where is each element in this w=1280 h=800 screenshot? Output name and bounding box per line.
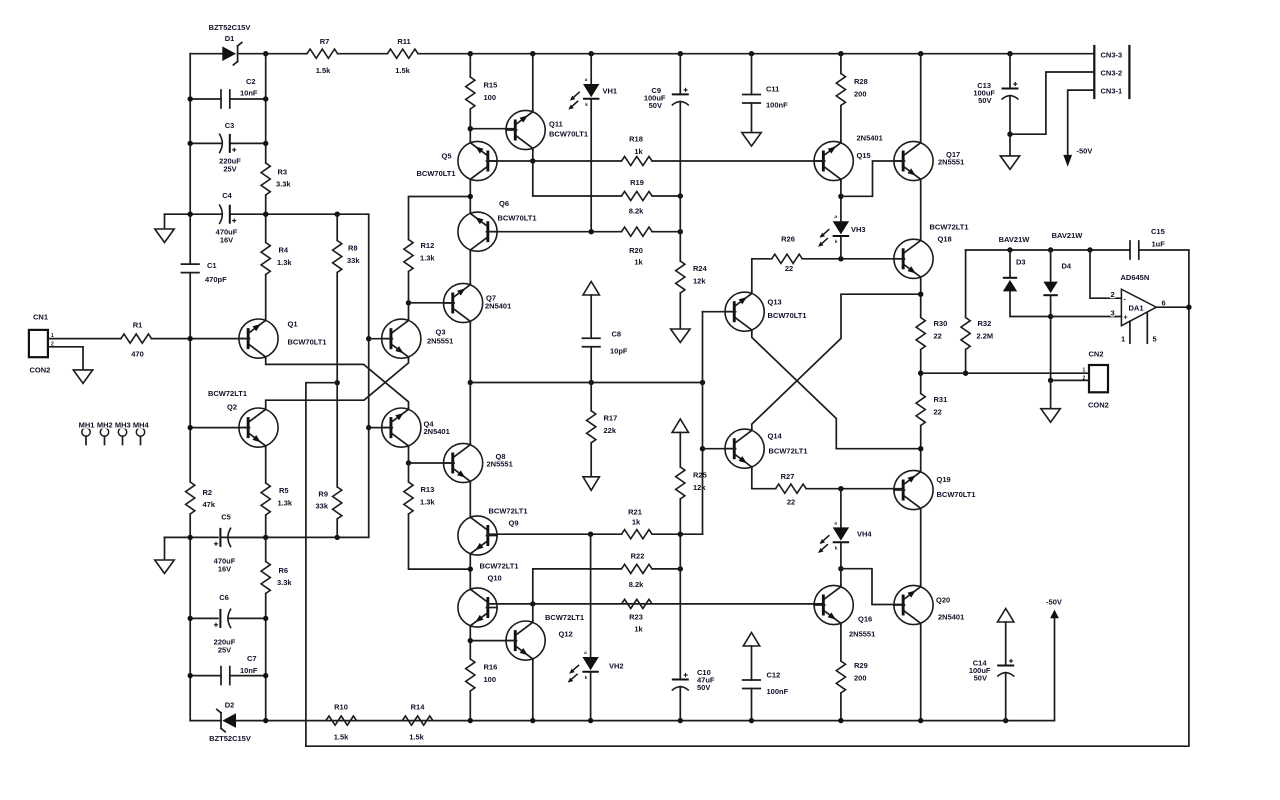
wire VH2 from R21 node	[590, 534, 592, 657]
junction node (1090,250)	[1087, 247, 1092, 252]
wire Q3 collector to R12 junction	[408, 303, 410, 319]
wire arrow to C14	[1005, 622, 1007, 666]
junction node (920.7,448.7)	[918, 446, 923, 451]
svg-text:R31: R31	[934, 395, 948, 404]
resistor R21 1k	[622, 530, 653, 539]
svg-text:-50V: -50V	[1077, 147, 1093, 156]
junction node (591.2,231.7)	[589, 229, 594, 234]
junction node (337.2,214.2)	[335, 212, 340, 217]
wire Q5 emitter/collector chain	[469, 181, 471, 212]
wire R18 left from Q5 base node	[533, 160, 622, 162]
junction node (265.7,675.6)	[263, 673, 268, 678]
wire R31 to Q19 emitter node	[920, 426, 922, 471]
svg-text:Q5: Q5	[442, 152, 452, 161]
wire C11 to ground	[751, 103, 753, 133]
svg-text:C2: C2	[246, 77, 256, 86]
svg-text:1.5k: 1.5k	[409, 733, 424, 742]
wire R7 to R11	[338, 53, 388, 55]
junction node (680.3,534.2)	[678, 532, 683, 537]
svg-text:10pF: 10pF	[610, 347, 628, 356]
resistor R17 22k	[587, 411, 596, 443]
svg-text:2N5551: 2N5551	[849, 630, 875, 639]
capacitor C11 100nF	[743, 95, 761, 104]
svg-text:2N5401: 2N5401	[938, 613, 964, 622]
resistor R7	[307, 49, 338, 58]
svg-text:R30: R30	[934, 319, 948, 328]
junction node (590.6,534.2)	[588, 532, 593, 537]
svg-text:Q19: Q19	[937, 475, 951, 484]
svg-text:2N5401: 2N5401	[485, 302, 511, 311]
wire Q2 collector to X cross to Q3 emitter	[266, 358, 409, 408]
svg-text:Q14: Q14	[768, 432, 783, 441]
svg-text:22k: 22k	[604, 426, 617, 435]
capacitor C1 470pF	[181, 264, 199, 273]
wire Q10 bottom to R16 node	[469, 627, 471, 659]
junction node (532.8,603.9)	[530, 601, 535, 606]
wire R28 to Q15 emitter	[840, 106, 842, 142]
svg-text:Q20: Q20	[936, 596, 950, 605]
svg-text:Q1: Q1	[288, 320, 298, 329]
wire CN1 pin2 to ground	[48, 347, 83, 370]
wire Q14 emitter to R27	[752, 468, 776, 488]
LED VH2	[568, 650, 599, 683]
junction node (265.7,99)	[263, 96, 268, 101]
wire VH4 node to Q20 base	[841, 569, 903, 605]
wire Q13 emitter X cross to Q19 side	[752, 331, 921, 448]
svg-text:C12: C12	[767, 671, 781, 680]
svg-text:R27: R27	[781, 472, 795, 481]
wire R15 bottom to node	[469, 109, 471, 141]
svg-text:Q12: Q12	[559, 630, 573, 639]
svg-text:Q13: Q13	[768, 298, 782, 307]
wire R24 to ground	[679, 293, 681, 329]
resistor R29 200	[836, 661, 845, 693]
wire Q16 collector to VH4 node	[840, 569, 842, 586]
svg-text:BCW72LT1: BCW72LT1	[480, 562, 519, 571]
wire C15 right to output vertical	[1139, 250, 1189, 307]
wire R2 to C5 to C6 to D2 corner	[189, 514, 191, 721]
junction node (190.2,618.4)	[188, 616, 193, 621]
wire Q4 collector down to R13 node	[408, 447, 410, 463]
svg-text:12k: 12k	[693, 483, 706, 492]
svg-text:8.2k: 8.2k	[629, 580, 644, 589]
svg-text:2N5551: 2N5551	[938, 158, 964, 167]
wire bottom rail	[326, 618, 1055, 720]
resistor R12 1.3k	[408, 272, 410, 303]
wire R19 to C9 column	[652, 195, 680, 197]
wire C13 from rail	[1009, 54, 1011, 89]
junction node (680.3,196)	[678, 193, 683, 198]
right vertical x=265.7 top	[265, 54, 267, 163]
svg-text:10nF: 10nF	[240, 89, 258, 98]
wire Q17 collector to rail	[920, 54, 922, 142]
capacitor C10 47uF 50V	[672, 673, 689, 691]
svg-text:470: 470	[131, 350, 144, 359]
svg-text:1k: 1k	[632, 518, 641, 527]
svg-text:D4: D4	[1062, 262, 1072, 271]
resistor R4 1.3k	[261, 243, 270, 275]
svg-text:D1: D1	[225, 34, 235, 43]
resistor R16 100	[466, 659, 475, 691]
power arrow -50V top	[1063, 155, 1072, 167]
junction node (702.5,382.5)	[700, 380, 705, 385]
svg-text:Q2: Q2	[227, 403, 237, 412]
junction node (840.9,53.7)	[838, 51, 843, 56]
resistor R10 1.5k	[326, 716, 357, 725]
svg-text:200: 200	[854, 674, 867, 683]
ground CN1	[73, 370, 92, 384]
svg-text:1uF: 1uF	[1152, 240, 1166, 249]
svg-text:100nF: 100nF	[766, 101, 788, 110]
wire Q20 emitter up join Q19 (same vertical)	[920, 584, 922, 586]
wire Q6 bottom to Q7 top	[469, 251, 471, 283]
svg-text:BCW70LT1: BCW70LT1	[498, 214, 537, 223]
junction node (190.2,214.2)	[188, 212, 193, 217]
svg-text:BCW70LT1: BCW70LT1	[768, 311, 807, 320]
junction node (965.6,373.2)	[963, 371, 968, 376]
wire arrow to R25	[679, 432, 681, 467]
junction node (337.2,537.4)	[335, 535, 340, 540]
svg-text:6: 6	[1162, 299, 1166, 308]
svg-text:C6: C6	[219, 593, 229, 602]
transistor Q17 2N5551	[894, 141, 933, 181]
wire C12 to rail	[751, 689, 753, 721]
svg-text:100: 100	[484, 675, 497, 684]
mounting hole MH1	[82, 428, 90, 445]
wire Q7 base	[409, 302, 452, 304]
junction node (470.3,382.5)	[468, 380, 473, 385]
junction node (265.7,214.2)	[263, 212, 268, 217]
svg-text:-50V: -50V	[1046, 598, 1062, 607]
wire R12 top to Q5/Q6 node	[409, 197, 471, 240]
wire Q11 collector to rail	[532, 54, 534, 111]
junction node (680.3,53.7)	[678, 51, 683, 56]
wire Q2 base	[190, 427, 248, 429]
svg-text:200: 200	[854, 90, 867, 99]
junction node (840.9,488.7)	[838, 486, 843, 491]
svg-text:D3: D3	[1016, 258, 1026, 267]
wire C10 to rail	[679, 687, 681, 721]
wire R25 bottom through R21/R22 nodes to C10	[679, 499, 681, 680]
wire input vertical R2 C5 C6 D2	[189, 428, 191, 482]
svg-text:VH1: VH1	[603, 87, 618, 96]
svg-text:Q15: Q15	[857, 151, 871, 160]
svg-text:BCW72LT1: BCW72LT1	[930, 223, 969, 232]
junction node (265.7,618.4)	[263, 616, 268, 621]
svg-text:3: 3	[1111, 309, 1115, 318]
svg-text:VH4: VH4	[857, 530, 872, 539]
wire R28 from rail	[840, 54, 842, 74]
svg-text:22: 22	[785, 264, 793, 273]
svg-text:33k: 33k	[347, 256, 360, 265]
capacitor C7 10nF	[190, 675, 221, 677]
LED VH1	[568, 77, 599, 110]
wire CN3-2 route	[1010, 72, 1094, 134]
wire Q15 node to Q17 base	[841, 161, 903, 196]
svg-text:+: +	[1124, 315, 1128, 322]
svg-text:R25: R25	[693, 471, 707, 480]
junction node (368.7,427.6)	[366, 425, 371, 430]
junction node (751.5,53.7)	[749, 51, 754, 56]
svg-text:2: 2	[1111, 290, 1115, 299]
junction node (840.9,196.3)	[838, 194, 843, 199]
wire Q13 base column	[703, 311, 734, 313]
wire Q1 collector to X cross to Q4 emitter	[266, 358, 409, 408]
wire R17 top	[590, 383, 592, 411]
wire Q5 base	[488, 160, 533, 162]
wire VH1 cathode down to Q6 base wire	[590, 100, 592, 232]
svg-text:R32: R32	[978, 319, 992, 328]
capacitor C9 100uF 50V	[672, 88, 689, 106]
wire VH1 anode from rail	[590, 54, 592, 84]
mounting hole MH4	[136, 428, 144, 445]
svg-text:Q18: Q18	[938, 235, 952, 244]
wire Q19 collector to Q20	[920, 510, 922, 586]
resistor R26 22	[772, 254, 803, 263]
junction node (1010,53.7)	[1007, 51, 1012, 56]
wire Q11 emitter down to R19 corner	[533, 150, 622, 196]
svg-text:3.3k: 3.3k	[277, 578, 292, 587]
svg-text:R8: R8	[348, 244, 358, 253]
svg-text:CON2: CON2	[30, 366, 51, 375]
junction node (470.3,196.5)	[468, 194, 473, 199]
svg-text:R19: R19	[630, 178, 644, 187]
svg-text:50V: 50V	[974, 674, 987, 683]
wire Q13 collector up to R26	[752, 259, 772, 292]
junction node (591.2,53.7)	[589, 51, 594, 56]
capacitor C14 100uF 50V	[997, 659, 1014, 677]
svg-text:Q6: Q6	[499, 199, 509, 208]
wire CN1 pin1 to R1	[48, 338, 121, 340]
svg-text:MH3: MH3	[115, 421, 131, 430]
svg-text:1.3k: 1.3k	[420, 254, 435, 263]
junction node (190.2,675.6)	[188, 673, 193, 678]
svg-text:C1: C1	[207, 261, 217, 270]
svg-text:VH3: VH3	[851, 225, 866, 234]
wire Q2 emitter to R5	[265, 447, 267, 483]
wire R32 top	[965, 250, 967, 318]
capacitor C2 10nF	[190, 98, 221, 100]
wire Q10 base to R23	[488, 603, 823, 605]
junction node (368.7,338.7)	[366, 336, 371, 341]
wire C14 to rail	[1005, 673, 1007, 721]
connector CN3 bars	[1093, 45, 1095, 99]
transistor Q18 BCW72LT1	[894, 239, 933, 279]
wire R9 to C5 rail	[336, 519, 338, 538]
junction node (591.2,382.5)	[589, 380, 594, 385]
junction node (680.3,720.6)	[678, 718, 683, 723]
wire mid node to C8/R17 and Q13/Q14 column	[470, 382, 702, 384]
svg-text:1.5k: 1.5k	[316, 66, 331, 75]
svg-text:BZT52C15V: BZT52C15V	[209, 23, 251, 32]
svg-text:1: 1	[1121, 335, 1125, 344]
wire Q15 collector to node	[840, 181, 842, 197]
resistor R1 470	[121, 334, 152, 343]
resistor R28 200	[836, 74, 845, 106]
resistor R3 3.3k	[261, 163, 270, 195]
svg-text:VH2: VH2	[609, 662, 624, 671]
junction node (920.7,720.6)	[918, 718, 923, 723]
wire Q16 emitter to R29	[840, 625, 842, 661]
svg-text:R20: R20	[629, 246, 643, 255]
svg-text:R17: R17	[604, 414, 618, 423]
svg-text:CN2: CN2	[1089, 350, 1104, 359]
junction node (470.3,569.1)	[468, 566, 473, 571]
resistor R5 1.3k	[261, 483, 270, 515]
wire R8 to R9 vertical	[336, 273, 338, 487]
transistor Q14 BCW72LT1	[725, 429, 764, 469]
ground under C4	[164, 214, 166, 229]
capacitor C4 470uF 16V	[165, 213, 223, 215]
svg-text:R26: R26	[781, 235, 795, 244]
svg-text:C11: C11	[766, 85, 779, 94]
wire pin3 to opamp	[1051, 316, 1122, 318]
wire opamp pin2 from rail	[1090, 250, 1121, 298]
transistor Q6 BCW70LT1 (mirrored)	[458, 212, 497, 252]
svg-text:16V: 16V	[218, 565, 231, 574]
junction node (840.9,720.6)	[838, 718, 843, 723]
svg-text:22: 22	[934, 332, 942, 341]
wire VH2 cathode to rail	[590, 673, 592, 721]
svg-text:1.3k: 1.3k	[277, 258, 292, 267]
transistor Q1 BCW70LT1	[239, 319, 278, 359]
svg-text:R1: R1	[133, 321, 143, 330]
wire Q6 base to VH1 node and R20	[488, 231, 622, 233]
resistor R24 12k	[676, 261, 685, 293]
svg-text:2N5401: 2N5401	[857, 134, 883, 143]
zener diode D2 BZT52C15V	[190, 720, 221, 722]
wire arrow to C12	[751, 646, 753, 680]
wire Q20 collector to rail	[920, 625, 922, 721]
transistor Q2 BCW72LT1	[239, 408, 278, 448]
svg-text:Q16: Q16	[858, 615, 872, 624]
capacitor C3 220uF 25V	[190, 142, 222, 144]
svg-text:C3: C3	[225, 121, 235, 130]
wire R18 to Q15 base	[652, 160, 823, 162]
wire D4 node to ground	[1050, 380, 1052, 408]
junction node (920.7,373.2)	[918, 371, 923, 376]
junction node (265.7,143.4)	[263, 141, 268, 146]
wire Q11 base	[470, 128, 514, 130]
wire C1 to input node	[189, 273, 191, 428]
wire R32 bottom to CN2 pin1 wire	[965, 350, 967, 374]
wire D2 to bottom rail	[236, 720, 326, 722]
wire Q12 base	[470, 640, 514, 642]
wire D1 to R7	[238, 53, 307, 55]
junction node (190.2,537.4)	[188, 535, 193, 540]
wire C4 bias to R8 and Q bases	[266, 214, 369, 537]
junction node (470.3,128.7)	[468, 126, 473, 131]
wire CN2 pin1 to R30/R31 node	[921, 372, 1089, 374]
wire R16 bottom to rail	[469, 691, 471, 721]
transistor Q11 BCW70LT1	[506, 110, 545, 150]
svg-text:Q11: Q11	[549, 120, 563, 129]
resistor R20 1k	[622, 227, 653, 236]
svg-text:47k: 47k	[203, 500, 216, 509]
wire Q12 collector up to Q10 base	[532, 604, 534, 621]
svg-text:R6: R6	[279, 566, 289, 575]
resistor R14 1.5k	[402, 716, 433, 725]
capacitor C12 100nF	[743, 680, 761, 689]
svg-text:BAV21W: BAV21W	[999, 235, 1031, 244]
svg-text:50V: 50V	[649, 101, 662, 110]
svg-text:R5: R5	[279, 486, 289, 495]
wire VH3 cathode to R26 node	[840, 237, 842, 259]
resistor R22 8.2k	[622, 564, 653, 573]
ground under C11	[742, 133, 761, 147]
svg-text:Q9: Q9	[509, 519, 519, 528]
junction node (190.2,427.6)	[188, 425, 193, 430]
svg-text:1.3k: 1.3k	[278, 499, 293, 508]
svg-text:25V: 25V	[223, 165, 236, 174]
junction node (1005.7,720.6)	[1003, 718, 1008, 723]
svg-text:BCW72LT1: BCW72LT1	[489, 507, 528, 516]
zener diode D1 BZT52C15V	[222, 43, 242, 65]
transistor Q7 2N5401	[444, 283, 483, 323]
junction node (190.2,99)	[188, 96, 193, 101]
svg-text:CN3-3: CN3-3	[1101, 51, 1123, 60]
junction node (470.3,53.7)	[468, 51, 473, 56]
transistor Q12 BCW72LT1	[506, 621, 545, 661]
svg-text:1.3k: 1.3k	[420, 498, 435, 507]
wire C5 to R9 bottom rail	[229, 536, 369, 538]
svg-text:BCW72LT1: BCW72LT1	[545, 613, 584, 622]
svg-text:BCW70LT1: BCW70LT1	[549, 130, 588, 139]
svg-text:BAV21W: BAV21W	[1052, 231, 1084, 240]
net arrow below R17	[583, 477, 599, 491]
junction node (1050.6,316.5)	[1048, 314, 1053, 319]
transistor Q16 2N5551	[814, 585, 853, 625]
wire feedback bottom	[306, 307, 1189, 746]
svg-text:12k: 12k	[693, 277, 706, 286]
svg-text:BCW70LT1: BCW70LT1	[417, 169, 456, 178]
wire R26 to VH3 node and Q18 base	[802, 258, 903, 260]
resistor R19 8.2k	[622, 191, 653, 200]
resistor R6 3.3k	[265, 537, 267, 561]
wire VH4 anode from R27 node	[840, 489, 842, 528]
svg-text:CN1: CN1	[33, 313, 48, 322]
net arrow above C14	[998, 609, 1014, 623]
junction node (920.7,53.7)	[918, 51, 923, 56]
svg-text:R7: R7	[320, 37, 330, 46]
wire C11 from rail	[751, 54, 753, 95]
transistor Q13 BCW70LT1	[725, 292, 764, 332]
svg-text:R18: R18	[629, 135, 643, 144]
svg-text:50V: 50V	[978, 96, 991, 105]
junction node (920.7,294.2)	[918, 292, 923, 297]
mounting hole MH3	[118, 428, 126, 445]
svg-text:100: 100	[484, 93, 497, 102]
svg-text:BCW70LT1: BCW70LT1	[937, 490, 976, 499]
wire servo rail y=250	[966, 249, 1130, 251]
svg-text:1k: 1k	[634, 625, 643, 634]
connector CN1	[29, 330, 48, 357]
svg-text:R28: R28	[854, 77, 868, 86]
svg-text:C8: C8	[612, 330, 622, 339]
svg-text:2N5401: 2N5401	[424, 427, 450, 436]
svg-text:1.5k: 1.5k	[334, 733, 349, 742]
svg-text:22: 22	[787, 498, 795, 507]
svg-text:2.2M: 2.2M	[977, 332, 994, 341]
wire Q4 base	[369, 427, 391, 429]
resistor R11	[387, 49, 418, 58]
resistor R27 22	[776, 484, 807, 493]
junction node (1188.9,307.2)	[1186, 305, 1191, 310]
wire CN3-1 to -50V	[1068, 90, 1095, 155]
wire R27 to VH4 node and Q19 base	[806, 488, 903, 490]
svg-text:100nF: 100nF	[767, 687, 789, 696]
svg-text:CN3-1: CN3-1	[1101, 87, 1123, 96]
